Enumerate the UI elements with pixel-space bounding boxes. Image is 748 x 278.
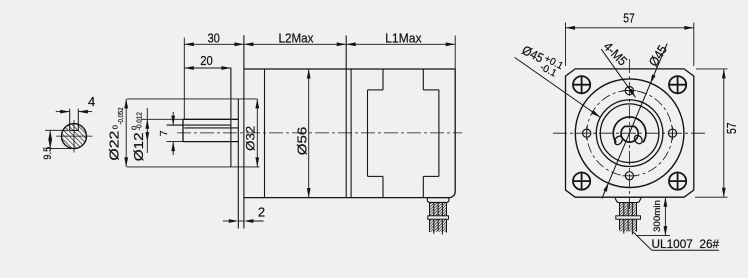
bolt circle dash-dot	[587, 90, 673, 176]
pilot circle outer	[575, 79, 684, 188]
gearbox body outline	[244, 69, 455, 198]
svg-text:20: 20	[200, 53, 213, 68]
front plate right face	[243, 35, 245, 228]
snap ring arc	[613, 117, 646, 143]
svg-text:Ø22: Ø22	[106, 131, 121, 161]
shaft circle with flat (front)	[621, 126, 638, 142]
front wire bundle	[620, 203, 637, 235]
front plate left face	[237, 99, 239, 229]
dimension 57 right	[695, 69, 739, 197]
detail vertical centerline	[73, 120, 75, 153]
snap ring ear right	[633, 134, 644, 145]
boss top edge and ext line	[127, 98, 257, 100]
dimension D32	[244, 99, 260, 167]
corner screw bottom-right	[669, 173, 686, 190]
front vertical centerline	[629, 59, 631, 209]
gearbox boss front face	[230, 68, 232, 167]
svg-text:-0.012: -0.012	[135, 112, 144, 130]
detail keyway slot walls	[70, 109, 79, 131]
M5 hole right	[668, 126, 676, 140]
dimension 30	[184, 30, 244, 46]
corner screw top-left	[573, 76, 590, 93]
side wire grommet	[427, 198, 449, 203]
gearbox front section seam	[264, 69, 266, 198]
M5 hole bottom	[622, 172, 636, 180]
motor front face	[350, 69, 352, 198]
svg-text:-0.052: -0.052	[116, 107, 125, 124]
corner screw top-right	[669, 76, 686, 93]
front wire tie band	[616, 216, 641, 219]
dimension 300min	[637, 197, 670, 235]
svg-text:57: 57	[724, 123, 739, 135]
leader 4-M5	[601, 39, 636, 98]
svg-text:L1Max: L1Max	[385, 30, 422, 45]
snap ring ear left	[613, 135, 624, 146]
M5 hole left	[583, 126, 591, 140]
shaft flat edge	[167, 124, 231, 126]
svg-text:UL1007 26#: UL1007 26#	[652, 237, 720, 251]
corner screw bottom-left	[573, 173, 590, 190]
svg-text:30: 30	[207, 30, 220, 45]
svg-text:L2Max: L2Max	[279, 30, 314, 45]
dimension L1Max	[346, 30, 455, 46]
flange square with chamfered corners	[566, 69, 694, 197]
dimension 20	[184, 53, 231, 70]
front wire grommet	[615, 197, 642, 202]
boss circle outer	[596, 100, 663, 167]
dimension 4 (slot width)	[56, 94, 95, 114]
svg-text:2: 2	[258, 205, 265, 220]
label UL1007 26#	[633, 232, 720, 251]
svg-text:300min: 300min	[652, 200, 663, 232]
boss circle inner	[600, 104, 659, 163]
svg-text:7: 7	[158, 130, 170, 136]
leader D45 +0.1 -0.1	[515, 42, 601, 117]
shaft outline (side view)	[183, 119, 238, 141]
svg-text:Ø32: Ø32	[244, 125, 258, 150]
side view centerline	[177, 132, 462, 134]
dimension L2Max	[244, 30, 346, 46]
dimension D12 with tolerance	[130, 108, 185, 161]
svg-text:Ø56: Ø56	[295, 127, 309, 156]
detail horizontal centerline	[56, 135, 93, 137]
svg-text:4: 4	[88, 94, 95, 109]
dimension 7	[158, 112, 184, 155]
M5 hole top	[622, 87, 636, 95]
svg-text:0: 0	[111, 125, 120, 129]
shaft cross-section detail: hatched circle	[62, 124, 87, 149]
dimension 2 (plate thickness)	[223, 205, 265, 223]
dimension D22 with tolerance	[106, 99, 128, 167]
dimension ext line at shaft tip	[183, 38, 185, 120]
side wire bundle	[430, 202, 447, 234]
diameter line D45	[602, 42, 670, 198]
motor rear face ext line	[454, 36, 456, 70]
dimension 9.5	[42, 130, 76, 159]
svg-text:57: 57	[623, 10, 635, 25]
svg-text:4-M5: 4-M5	[601, 39, 631, 69]
svg-text:9.5: 9.5	[42, 147, 54, 160]
svg-text:Ø12: Ø12	[131, 132, 146, 161]
gearbox rear face	[345, 36, 347, 198]
stator lamination profile	[368, 69, 439, 198]
front horizontal centerline	[553, 132, 707, 134]
dimension D56	[295, 69, 310, 198]
side wire tie band	[428, 216, 449, 219]
boss bottom edge and ext line	[127, 166, 260, 168]
dimension 57 top	[566, 10, 694, 66]
